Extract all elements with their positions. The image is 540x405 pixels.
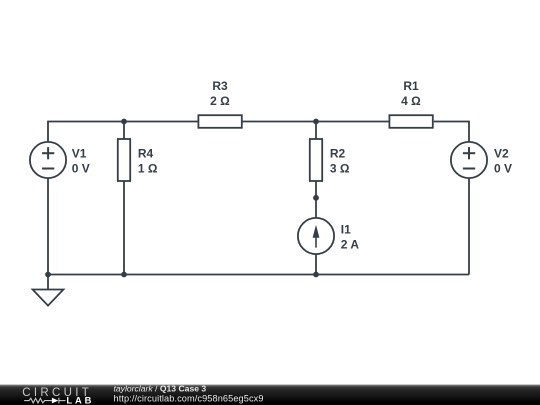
wire V2 bottom bbox=[468, 178, 470, 275]
wire R4 top bbox=[123, 122, 125, 140]
junction dot R2-I1 bbox=[313, 195, 319, 201]
wire I1 top bbox=[315, 198, 317, 219]
ground bbox=[33, 275, 64, 306]
resistor R3 bbox=[198, 115, 241, 128]
logo CircuitLab bbox=[22, 387, 94, 405]
label R4 1ohm bbox=[138, 147, 158, 176]
svg-text:4 Ω: 4 Ω bbox=[401, 94, 421, 108]
wire top-right segment bbox=[434, 122, 469, 143]
current source I1 bbox=[298, 218, 334, 254]
svg-text:R1: R1 bbox=[403, 79, 419, 93]
label R3 2ohm bbox=[210, 79, 230, 108]
svg-text:0 V: 0 V bbox=[72, 161, 90, 175]
junction dot R4-bottom bbox=[121, 272, 127, 278]
wire top-middle segment bbox=[242, 121, 388, 123]
junction dot R4-top bbox=[121, 119, 127, 125]
svg-text:V1: V1 bbox=[72, 147, 87, 161]
wire top-left segment bbox=[48, 122, 198, 143]
junction dot I1-bottom bbox=[313, 272, 319, 278]
junction dot ground bbox=[45, 272, 51, 278]
svg-text:LAB: LAB bbox=[66, 394, 94, 405]
label R2 3ohm bbox=[330, 147, 350, 176]
label V1 0V bbox=[72, 147, 90, 176]
svg-text:0 V: 0 V bbox=[494, 161, 512, 175]
wire R2 bottom bbox=[315, 181, 317, 198]
resistor R2 bbox=[310, 139, 322, 181]
svg-text:V2: V2 bbox=[494, 147, 509, 161]
svg-text:R4: R4 bbox=[138, 147, 154, 161]
label I1 2A bbox=[341, 223, 360, 252]
label R1 4ohm bbox=[401, 79, 421, 108]
svg-text:R2: R2 bbox=[330, 147, 346, 161]
svg-text:2 Ω: 2 Ω bbox=[210, 94, 230, 108]
svg-text:I1: I1 bbox=[341, 223, 351, 237]
resistor R1 bbox=[389, 115, 432, 128]
wire V1 bottom bbox=[47, 178, 49, 275]
resistor R4 bbox=[118, 139, 130, 181]
svg-text:1 Ω: 1 Ω bbox=[138, 161, 158, 175]
voltage source V2 bbox=[451, 142, 487, 178]
wire R4 bottom bbox=[123, 181, 125, 275]
wire bottom rail bbox=[48, 274, 469, 276]
wire R2 top bbox=[315, 122, 317, 140]
svg-text:R3: R3 bbox=[212, 79, 228, 93]
label V2 0V bbox=[494, 147, 512, 176]
wire I1 bottom bbox=[315, 254, 317, 275]
junction dot R2-top bbox=[313, 119, 319, 125]
voltage source V1 bbox=[30, 142, 66, 178]
svg-text:taylorclark / Q13 Case 3: taylorclark / Q13 Case 3 bbox=[114, 384, 207, 394]
svg-text:2 A: 2 A bbox=[341, 238, 360, 252]
svg-text:3 Ω: 3 Ω bbox=[330, 161, 350, 175]
svg-text:http://circuitlab.com/c958n65e: http://circuitlab.com/c958n65eg5cx9 bbox=[114, 393, 264, 403]
footer text bbox=[114, 384, 264, 404]
